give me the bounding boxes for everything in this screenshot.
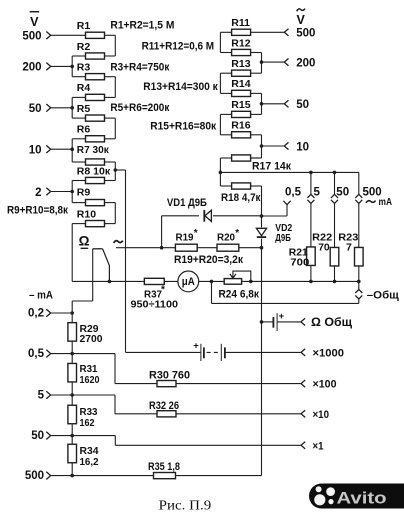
resistor R15 (231, 99, 250, 117)
svg-text:×1: ×1 (313, 440, 324, 452)
wire x1000 line right (225, 351, 301, 353)
node 5 mA connector (307, 172, 314, 247)
wire R10 to main line (72, 224, 85, 282)
svg-text:162: 162 (80, 417, 95, 429)
svg-text:R9+R10=8,8к: R9+R10=8,8к (7, 205, 68, 217)
svg-text:+: + (279, 311, 285, 322)
wire x10 line (72, 395, 301, 414)
svg-text:50: 50 (336, 186, 349, 198)
svg-text:50: 50 (29, 103, 42, 115)
resistor R3 (77, 61, 105, 79)
svg-text:Рис. П.9: Рис. П.9 (159, 498, 212, 513)
svg-text:R15+R16=80к: R15+R16=80к (150, 120, 216, 132)
svg-text:R2: R2 (77, 41, 91, 53)
svg-text:mA: mA (379, 196, 393, 208)
node Vdc label (30, 12, 40, 29)
svg-text:0,5: 0,5 (28, 348, 45, 360)
svg-text:R3: R3 (77, 61, 91, 73)
svg-text:R19: R19 (176, 232, 194, 244)
svg-text:–Общ: –Общ (367, 289, 400, 301)
svg-text:R19+R20=3,2к: R19+R20=3,2к (174, 254, 243, 266)
node 0,2 mA tap (28, 308, 74, 320)
svg-text:10: 10 (29, 145, 42, 157)
svg-text:R1: R1 (77, 20, 91, 32)
svg-text:R13+R14=300 к: R13+R14=300 к (143, 81, 218, 93)
svg-text:Ω Общ: Ω Общ (311, 317, 352, 329)
svg-text:*: * (161, 284, 165, 295)
label -mA (29, 289, 53, 301)
svg-text:R5: R5 (77, 103, 91, 115)
svg-text:R30 760: R30 760 (149, 370, 190, 382)
wire rectifier line (116, 246, 263, 250)
svg-text:*: * (235, 228, 239, 239)
label R13+R14 (143, 81, 218, 93)
svg-text:R6: R6 (77, 124, 91, 136)
svg-text:200: 200 (296, 57, 315, 69)
svg-text:Ω: Ω (79, 233, 90, 248)
svg-text:R1+R2=1,5 М: R1+R2=1,5 М (110, 20, 174, 32)
svg-text:– mA: – mA (29, 289, 53, 301)
svg-text:2: 2 (35, 187, 41, 199)
wire divider bus (71, 313, 73, 476)
svg-text:R35 1,8: R35 1,8 (148, 461, 180, 473)
node 50 Vac tap label (284, 99, 309, 111)
svg-text:500: 500 (296, 28, 315, 40)
wire right ladder taps (251, 32, 285, 148)
wire AC contact riser (125, 170, 127, 352)
wire x100 line (72, 354, 301, 384)
wire common bus (261, 186, 263, 476)
wire right ladder zig-zag (220, 32, 261, 158)
resistor R8 (77, 165, 111, 183)
svg-text:R12: R12 (231, 37, 250, 49)
svg-text:R13: R13 (231, 58, 250, 70)
node 2 V tap label (35, 187, 51, 199)
svg-text:×1000: ×1000 (313, 347, 345, 359)
node 500 V tap label (22, 31, 50, 43)
node 500 mA tap (25, 470, 74, 482)
svg-text:R14: R14 (231, 78, 250, 90)
node 50 mA tap (31, 430, 74, 442)
resistor R20 (217, 228, 239, 251)
wire main meter line (72, 280, 360, 284)
node 500 mA connector (355, 172, 362, 247)
wire left ladder zig-zag (72, 35, 115, 223)
resistor R33 (68, 405, 98, 429)
svg-text:R17 14к: R17 14к (252, 161, 291, 173)
label R19+R20 (174, 254, 243, 266)
svg-text:R7 30к: R7 30к (77, 144, 110, 156)
svg-text:R20: R20 (217, 232, 235, 244)
svg-text:R3+R4=750к: R3+R4=750к (110, 61, 169, 73)
svg-text:2700: 2700 (80, 333, 103, 345)
node 10 V tap label (29, 145, 51, 157)
label R15+R16 (150, 120, 216, 132)
resistor R19 (175, 228, 197, 251)
svg-text:R24 6,8к: R24 6,8к (219, 289, 260, 301)
label R11+R12 (142, 41, 215, 53)
svg-text:500: 500 (25, 470, 44, 482)
resistor R24 rheostat (219, 271, 260, 301)
svg-text:950÷1100: 950÷1100 (131, 299, 179, 311)
node 50 mA connector (331, 172, 338, 247)
resistor R17 (232, 155, 292, 173)
svg-text:*: * (194, 228, 198, 239)
resistor R13 (231, 58, 250, 76)
svg-text:+: + (193, 340, 199, 351)
resistor R6 (77, 124, 105, 142)
battery GB1 ohm cell (260, 311, 301, 331)
node Omega Obshch terminal (301, 317, 352, 329)
label R3+R4 (110, 61, 169, 73)
meter PA1 microammeter (178, 271, 199, 292)
svg-text:0,2: 0,2 (28, 308, 44, 320)
svg-text:×100: ×100 (313, 379, 337, 391)
wire x1000 line left (126, 351, 201, 353)
label R9+R10 (7, 205, 68, 217)
wire VD1 branch (160, 216, 262, 250)
switch mode selector (79, 233, 123, 281)
node 500 Vac tap label (284, 28, 315, 40)
svg-text:50: 50 (31, 430, 44, 442)
svg-text:R16: R16 (231, 120, 250, 132)
svg-text:10: 10 (296, 141, 309, 153)
node 0,5 mA connector (260, 201, 291, 218)
svg-text:R10: R10 (77, 208, 96, 220)
node 200 V tap label (22, 62, 50, 74)
battery GB2 cells (193, 340, 225, 361)
wire left ladder taps (51, 35, 86, 193)
node 50 V tap label (29, 103, 51, 115)
resistor R30 (149, 370, 190, 387)
svg-text:5: 5 (38, 390, 45, 402)
svg-text:R11: R11 (231, 17, 250, 29)
svg-text:200: 200 (22, 62, 41, 74)
node x1 terminal (301, 440, 324, 452)
svg-text:R8 10к: R8 10к (77, 165, 111, 177)
label figure caption (159, 498, 212, 513)
resistor R4 (77, 82, 105, 100)
label R5+R6 (110, 102, 169, 114)
svg-text:70: 70 (318, 241, 330, 253)
resistor R9 (77, 187, 105, 206)
node Vac label (297, 9, 306, 27)
svg-text:50: 50 (296, 99, 309, 111)
node x1000 terminal (301, 347, 344, 359)
resistor R5 (77, 103, 105, 121)
svg-text:V: V (297, 13, 306, 27)
wire lower common return (212, 281, 359, 303)
svg-text:500: 500 (22, 31, 41, 43)
svg-text:V: V (30, 15, 39, 29)
resistor R7 (77, 144, 110, 165)
diode VD1 (167, 197, 213, 222)
wire x1 line (72, 436, 301, 446)
resistor R18 (221, 183, 261, 204)
svg-text:Д9Б: Д9Б (275, 232, 291, 244)
resistor R21 (289, 247, 315, 282)
label mA range values (285, 186, 392, 208)
svg-text:1620: 1620 (80, 374, 100, 386)
node 200 Vac tap label (284, 57, 315, 69)
svg-text:16,2: 16,2 (80, 456, 99, 468)
svg-text:700: 700 (290, 256, 309, 268)
resistor R14 (231, 78, 250, 96)
svg-text:R9: R9 (77, 187, 91, 199)
resistor R10 (77, 208, 105, 226)
node 10 Vac tap label (284, 141, 309, 153)
node 0,5 mA tap (28, 348, 74, 360)
resistor R23 (338, 232, 363, 282)
node x10 terminal (301, 409, 329, 421)
wire R17-R18 chain (219, 158, 262, 186)
svg-text:R32 26: R32 26 (149, 400, 179, 412)
resistor R22 (312, 232, 339, 282)
node 5 mA tap (38, 390, 74, 402)
svg-text:R11+R12=0,6 М: R11+R12=0,6 М (142, 41, 215, 53)
svg-text:R18 4,7к: R18 4,7к (221, 192, 261, 204)
svg-text:Avito: Avito (337, 489, 387, 508)
resistor R11 (231, 17, 250, 35)
resistor R12 (231, 37, 250, 55)
wire mA range line (220, 171, 358, 175)
resistor R31 (68, 363, 100, 386)
resistor R29 (68, 323, 103, 345)
resistor R37 (131, 278, 179, 310)
svg-text:5: 5 (314, 186, 321, 198)
svg-text:R5+R6=200к: R5+R6=200к (110, 102, 169, 114)
svg-text:0,5: 0,5 (285, 186, 302, 198)
resistor R34 (68, 444, 99, 468)
svg-text:R4: R4 (77, 82, 91, 94)
node x100 terminal (301, 379, 337, 391)
node R7-R8 junction to AC contact (114, 168, 126, 172)
svg-text:7: 7 (346, 241, 352, 253)
label R1+R2 (110, 20, 174, 32)
svg-text:×10: ×10 (313, 409, 330, 421)
resistor R16 (231, 120, 250, 138)
svg-text:R15: R15 (231, 99, 250, 111)
resistor R35 (148, 461, 180, 479)
diode VD2 (255, 222, 292, 244)
node -Obshch terminal (355, 281, 399, 301)
resistor R32 (149, 400, 179, 417)
svg-text:VD1 Д9Б: VD1 Д9Б (167, 197, 207, 209)
resistor R1 (77, 20, 105, 38)
resistor R2 (77, 41, 105, 59)
wire 500 mA line (72, 475, 261, 477)
wire ohm contact to divider (72, 249, 93, 313)
watermark Avito (309, 484, 404, 509)
svg-text:μA: μA (182, 276, 195, 288)
